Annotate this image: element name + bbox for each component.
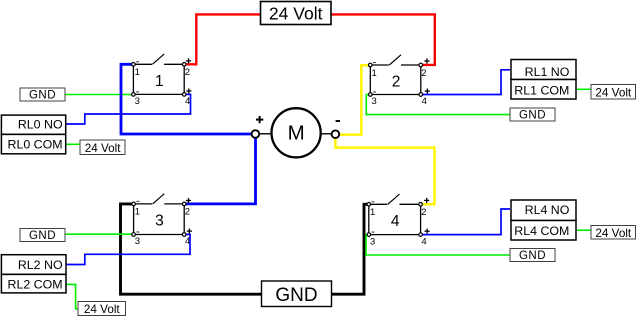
svg-text:24 Volt: 24 Volt (84, 303, 120, 316)
svg-text:1: 1 (135, 207, 140, 218)
switch S4 terminal pin 3 (367, 233, 371, 237)
switch S3 contact arm (153, 194, 165, 204)
wire green RL1 COM to 24 Volt (576, 88, 591, 90)
svg-text:1: 1 (155, 73, 164, 90)
svg-text:GND: GND (275, 285, 317, 306)
label box RL2 COM (1, 274, 66, 293)
svg-text:24 Volt: 24 Volt (595, 227, 631, 240)
label box GND lower-right (510, 249, 555, 263)
svg-text:RL2 COM: RL2 COM (8, 277, 63, 291)
switch S2 terminal pin 2 (419, 63, 423, 67)
svg-text:1: 1 (135, 67, 140, 78)
wire green RL2 COM to 24 Volt (66, 284, 79, 308)
switch S4 (367, 194, 430, 247)
switch S2 terminal pin 3 (369, 93, 373, 97)
label box GND bottom-left (20, 229, 65, 243)
svg-text:3: 3 (135, 96, 140, 107)
svg-text:RL1 COM: RL1 COM (514, 84, 569, 98)
switch S1 minus sign pin 3 (136, 91, 139, 93)
label box GND top-left (20, 88, 65, 102)
switch S1 terminal pin 4 (182, 93, 186, 97)
svg-text:2: 2 (392, 74, 401, 91)
svg-text:1: 1 (370, 207, 375, 218)
switch S4 terminal pin 1 (367, 203, 371, 207)
switch S1 plus sign pin 4 (186, 90, 191, 92)
wire green switch4 pin3 to GND (366, 235, 510, 255)
svg-text:1: 1 (372, 68, 377, 79)
svg-text:2: 2 (421, 207, 426, 218)
switch S4 terminal pin 4 (419, 233, 423, 237)
svg-text:2: 2 (185, 67, 190, 78)
label box 24 Volt upper-right (591, 85, 635, 100)
wire blue RL2 NO to switch3 pin4 (66, 234, 191, 264)
switch S3 terminal pin 3 (132, 233, 136, 237)
svg-text:RL4 NO: RL4 NO (525, 203, 570, 217)
label box RL1 NO (511, 60, 576, 80)
label box RL4 NO (511, 200, 576, 221)
switch S4 minus sign pin 1 (372, 201, 375, 203)
switch S4 terminal pin 2 (419, 203, 423, 207)
switch S4 minus sign pin 3 (372, 231, 375, 233)
switch S3 plus sign pin 2 (186, 200, 191, 202)
switch S2 terminal pin 1 (369, 63, 373, 67)
switch S3 terminal pin 1 (132, 202, 136, 206)
switch S2 minus sign pin 1 (373, 62, 376, 64)
switch S2 plus sign pin 2 (424, 60, 429, 62)
wire green RL0 COM to 24 Volt (65, 143, 80, 145)
switch S1 (132, 54, 192, 107)
wire blue switch1 pin1 to motor plus node (121, 64, 252, 134)
svg-text:3: 3 (370, 236, 375, 247)
wire black GND bus right to switch4 pin1 (332, 204, 369, 294)
wire yellow motor minus node to switch4 pin2 (335, 136, 434, 204)
label box 24 Volt lower-left (78, 302, 126, 316)
switch S1 contact arm (152, 54, 164, 64)
switch S2 contact arm (389, 55, 401, 65)
svg-text:GND: GND (519, 250, 546, 262)
svg-text:RL1 NO: RL1 NO (525, 65, 570, 79)
switch S2 (369, 55, 430, 107)
label box GND bottom (262, 281, 332, 307)
switch S1 terminal pin 2 (182, 63, 186, 67)
svg-text:24 Volt: 24 Volt (85, 142, 121, 155)
svg-text:4: 4 (391, 213, 400, 230)
label box 24 Volt upper-left (80, 140, 125, 155)
svg-text:GND: GND (29, 90, 56, 102)
wire green RL4 COM to 24 Volt (576, 229, 591, 231)
svg-text:M: M (288, 122, 305, 145)
label box RL1 COM (511, 80, 576, 100)
wire blue switch4 pin4 to RL4 NO (421, 209, 510, 235)
wire red 24 Volt to switch1 pin2 (184, 14, 260, 64)
switch S3 plus sign pin 4 (187, 230, 192, 232)
svg-text:3: 3 (135, 236, 140, 247)
wire green GND to switch3 pin3 (65, 233, 134, 235)
svg-text:4: 4 (185, 236, 190, 247)
switch S1 plus sign pin 2 (186, 60, 191, 62)
switch S1 terminal pin 3 (132, 93, 136, 97)
wire red 24 Volt to switch2 pin2 (331, 14, 435, 65)
switch S1 minus sign pin 1 (136, 61, 139, 63)
switch S3 minus sign pin 3 (136, 231, 139, 233)
switch S3 (132, 194, 192, 248)
switch S3 minus sign pin 1 (136, 200, 139, 202)
switch S3 body outline (133, 204, 135, 235)
svg-text:3: 3 (372, 96, 377, 107)
svg-text:24 Volt: 24 Volt (595, 86, 631, 99)
svg-text:3: 3 (155, 212, 164, 229)
svg-text:GND: GND (29, 230, 56, 242)
node motor plus terminal (252, 116, 264, 138)
switch S2 terminal pin 4 (419, 93, 423, 97)
svg-text:RL0 NO: RL0 NO (18, 118, 63, 132)
wire yellow motor minus node to switch2 pin1 (337, 65, 370, 134)
motor M (260, 108, 332, 157)
switch S3 terminal pin 2 (182, 202, 186, 206)
switch S2 body outline (369, 65, 371, 95)
svg-text:RL2 NO: RL2 NO (18, 258, 63, 272)
label box 24 Volt top (261, 2, 332, 25)
svg-text:RL4 COM: RL4 COM (514, 224, 569, 238)
svg-text:4: 4 (422, 96, 427, 107)
svg-text:2: 2 (185, 207, 190, 218)
wire blue switch2 pin4 to RL1 NO (421, 70, 510, 95)
svg-text:24 Volt: 24 Volt (269, 3, 323, 23)
switch S4 plus sign pin 2 (424, 199, 429, 201)
wire green GND to switch1 pin3 (65, 94, 133, 96)
svg-text:4: 4 (421, 236, 426, 247)
wire black GND bus left from switch3 pin1 (121, 204, 262, 294)
label box RL0 COM (1, 134, 65, 153)
switch S3 terminal pin 4 (182, 233, 186, 237)
switch S2 plus sign pin 4 (425, 90, 430, 92)
wire green switch2 pin3 to GND (366, 95, 510, 115)
label box GND upper-right (510, 108, 555, 122)
switch S2 minus sign pin 3 (373, 91, 376, 93)
label box RL2 NO (1, 255, 66, 275)
label box RL0 NO (1, 115, 65, 134)
svg-text:2: 2 (421, 68, 426, 79)
switch S4 body outline (368, 204, 370, 234)
label box 24 Volt lower-right (591, 225, 635, 240)
label box RL4 COM (511, 221, 576, 241)
svg-text:4: 4 (185, 96, 190, 107)
switch S1 terminal pin 1 (132, 63, 136, 67)
wire blue RL0 NO to switch1 pin4 (66, 94, 191, 124)
switch S4 plus sign pin 4 (425, 230, 430, 232)
node motor minus terminal (332, 121, 340, 138)
switch S1 body outline (132, 64, 134, 94)
wire blue motor plus node to switch3 pin2 (184, 136, 255, 204)
switch S4 contact arm (388, 194, 400, 204)
svg-text:RL0 COM: RL0 COM (8, 137, 63, 151)
svg-text:GND: GND (519, 110, 546, 122)
